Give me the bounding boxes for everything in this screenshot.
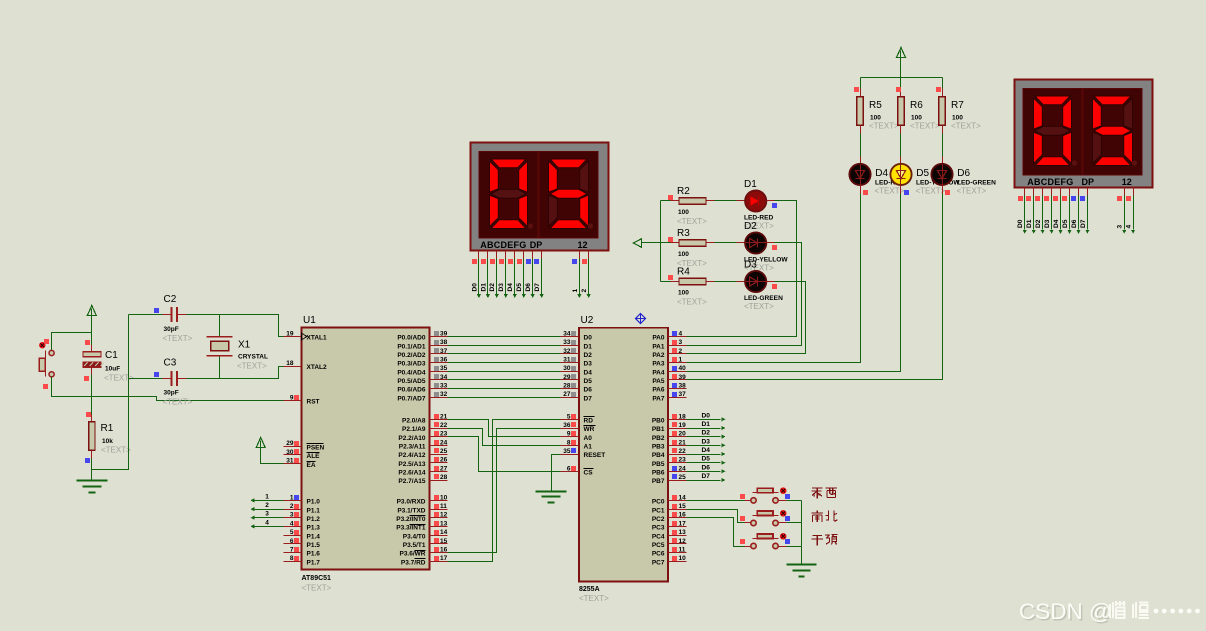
wire R1 to ground — [91, 451, 93, 459]
svg-text:PC3: PC3 — [652, 525, 665, 532]
svg-text:CRYSTAL: CRYSTAL — [238, 354, 268, 361]
svg-text:P3.0/RXD: P3.0/RXD — [397, 499, 426, 506]
U1 pin 9 RST — [284, 400, 302, 402]
svg-text:PA0: PA0 — [652, 335, 665, 342]
LED D5 — [890, 164, 911, 185]
U2 pin 30 D4 — [561, 371, 579, 373]
resistor R4 — [679, 278, 706, 284]
U1 pin 26 P2.5/A13 — [430, 462, 448, 464]
svg-text:P0.4/AD4: P0.4/AD4 — [397, 369, 426, 376]
svg-text:5: 5 — [567, 413, 571, 420]
U2 pin 35 RESET — [561, 454, 579, 456]
U1 pin 17 P3.7/RD — [430, 561, 448, 563]
U1 pin 22 P2.1/A9 — [430, 428, 448, 430]
U2 pin 34 D0 — [561, 336, 579, 338]
wire P0.4 to D4 — [448, 371, 561, 373]
svg-text:D3: D3 — [498, 283, 505, 292]
wire D3 to PA2 — [767, 281, 775, 283]
U2 pin 24 PB6 — [669, 471, 687, 473]
U2 pin 32 D2 — [561, 353, 579, 355]
svg-text:R2: R2 — [677, 186, 690, 197]
svg-text:28: 28 — [440, 474, 448, 481]
push button intervene — [751, 543, 756, 548]
U2 pin 14 PC0 — [669, 500, 687, 502]
U1 pin 16 P3.6/WR — [430, 552, 448, 554]
svg-text:P0.1/AD1: P0.1/AD1 — [397, 343, 426, 350]
IC U2 8255A body — [579, 328, 668, 582]
wire D5 to U2 PA4 — [900, 185, 902, 194]
wire C3 to XTAL2 — [178, 378, 187, 380]
svg-text:R1: R1 — [101, 423, 114, 434]
svg-text:<TEXT>: <TEXT> — [916, 187, 946, 196]
label east-west (chinese) — [812, 488, 823, 499]
svg-text:25: 25 — [440, 448, 448, 455]
terminal D2 (PB2) — [687, 436, 721, 438]
svg-text:P1.2: P1.2 — [307, 516, 321, 523]
svg-text:3: 3 — [679, 339, 683, 346]
U1 pin 11 P3.1/TXD — [430, 509, 448, 511]
U1 pin 18 XTAL2 — [284, 366, 302, 368]
svg-text:P1.5: P1.5 — [307, 542, 321, 549]
ground (buttons) — [787, 564, 817, 566]
capacitor C1 — [83, 352, 101, 357]
svg-text:3: 3 — [265, 511, 269, 518]
wire button bottom to RST net — [52, 377, 284, 401]
wire to R3 — [661, 242, 671, 244]
svg-text:D2: D2 — [489, 283, 496, 292]
U1 pin 6 P1.5 — [284, 543, 302, 545]
svg-text:<TEXT>: <TEXT> — [744, 302, 774, 311]
svg-text:1: 1 — [265, 493, 269, 500]
U2 pin 5 RD — [561, 419, 579, 421]
U1 pin 1 P1.0 — [284, 500, 302, 502]
svg-text:100: 100 — [678, 290, 689, 297]
svg-text:P2.0/A8: P2.0/A8 — [402, 418, 426, 425]
svg-text:D6: D6 — [584, 387, 593, 394]
svg-text:PA1: PA1 — [652, 343, 665, 350]
svg-text:100: 100 — [678, 251, 689, 258]
U1 pin 7 P1.6 — [284, 552, 302, 554]
power terminal VCC (pedestrian LEDs) — [897, 48, 906, 58]
svg-text:27: 27 — [440, 465, 448, 472]
wire rail to R7 — [942, 78, 944, 89]
svg-text:LED-GREEN: LED-GREEN — [744, 295, 783, 302]
svg-text:10k: 10k — [102, 438, 113, 445]
DS1 pin C / net D2 — [496, 251, 498, 259]
svg-text:26: 26 — [440, 457, 448, 464]
U2 pin 19 PB1 — [669, 428, 687, 430]
svg-text:PC7: PC7 — [652, 559, 665, 566]
svg-text:D4: D4 — [702, 447, 711, 454]
svg-text:40: 40 — [679, 365, 687, 372]
U1 pin 30 ALE — [284, 454, 302, 456]
U1 pin 10 P3.0/RXD — [430, 500, 448, 502]
svg-text:33: 33 — [440, 383, 448, 390]
svg-text:PC5: PC5 — [652, 542, 665, 549]
svg-text:PB5: PB5 — [652, 461, 665, 468]
svg-text:D5: D5 — [584, 378, 593, 385]
svg-text:36: 36 — [563, 422, 571, 429]
svg-text:100: 100 — [678, 209, 689, 216]
svg-text:P2.2/A10: P2.2/A10 — [398, 435, 425, 442]
svg-text:R3: R3 — [677, 228, 690, 239]
svg-text:XTAL2: XTAL2 — [307, 364, 327, 371]
capacitor C2 — [129, 314, 163, 316]
svg-text:D3: D3 — [744, 260, 757, 271]
svg-text:16: 16 — [679, 512, 687, 519]
svg-text:<TEXT>: <TEXT> — [163, 398, 193, 407]
wire rail to R5 — [860, 78, 862, 89]
reset button — [51, 351, 53, 355]
wire rail to R6 — [900, 78, 902, 89]
svg-text:D4: D4 — [584, 369, 593, 376]
svg-text:D2: D2 — [1035, 219, 1042, 228]
U2 pin 23 PB5 — [669, 462, 687, 464]
DS1 pin B / net D1 — [487, 251, 489, 259]
svg-text:P0.7/AD7: P0.7/AD7 — [397, 395, 426, 402]
DS2 pin DP / net D7 — [1087, 188, 1089, 196]
svg-text:CS: CS — [584, 470, 594, 477]
DS1 pin E / net D4 — [514, 251, 516, 259]
DS1 pin G / net D6 — [532, 251, 534, 259]
U1 pin 28 P2.7/A15 — [430, 480, 448, 482]
svg-text:19: 19 — [679, 422, 687, 429]
svg-text:12: 12 — [1122, 177, 1132, 187]
origin marker (blue) above U2 — [636, 314, 646, 324]
svg-text:PA4: PA4 — [652, 369, 665, 376]
svg-text:PSEN: PSEN — [307, 444, 325, 451]
svg-text:A1: A1 — [584, 444, 593, 451]
wire VCC rail — [861, 77, 943, 79]
svg-text:D2: D2 — [584, 352, 593, 359]
svg-text:PB1: PB1 — [652, 426, 665, 433]
DS1 pin F / net D5 — [523, 251, 525, 259]
DS2 pin D / net D3 — [1051, 188, 1053, 196]
U2 pin 3 PA1 — [669, 345, 687, 347]
U2 pin 38 PA6 — [669, 388, 687, 390]
svg-text:16: 16 — [440, 546, 448, 553]
svg-text:P1.1: P1.1 — [307, 507, 321, 514]
U1 pin 33 P0.6/AD6 — [430, 388, 448, 390]
svg-text:19: 19 — [286, 331, 294, 338]
svg-text:39: 39 — [440, 331, 448, 338]
svg-text:P3.5/T1: P3.5/T1 — [403, 542, 426, 549]
power terminal VCC (EA pin) — [256, 438, 265, 448]
svg-text:ALE: ALE — [307, 453, 321, 460]
U2 pin 36 WR — [561, 428, 579, 430]
label north-south (chinese) — [812, 511, 824, 523]
svg-text:14: 14 — [679, 494, 687, 501]
svg-text:32: 32 — [440, 391, 448, 398]
svg-text:30: 30 — [563, 365, 571, 372]
7-segment display DS1 frame — [471, 143, 609, 251]
svg-text:13: 13 — [440, 520, 448, 527]
U1 pin 39 P0.0/AD0 — [430, 336, 448, 338]
svg-text:P2.4/A12: P2.4/A12 — [398, 452, 425, 459]
wire D4 to U2 PA3 — [860, 185, 862, 194]
svg-text:LED-GREEN: LED-GREEN — [957, 180, 996, 187]
LED D4 — [849, 164, 870, 185]
U2 pin 29 D5 — [561, 379, 579, 381]
U2 pin 27 D7 — [561, 397, 579, 399]
terminal 2 (P1.1) — [255, 509, 284, 511]
resistor R6 — [898, 97, 904, 126]
svg-text:5: 5 — [290, 529, 294, 536]
svg-text:PC1: PC1 — [652, 507, 665, 514]
svg-text:AT89C51: AT89C51 — [302, 575, 332, 582]
wire VCC to EA — [261, 448, 284, 464]
svg-text:D6: D6 — [957, 168, 970, 179]
svg-text:D5: D5 — [516, 283, 523, 292]
svg-text:PA2: PA2 — [652, 352, 665, 359]
DS2 pin B / net D1 — [1033, 188, 1035, 196]
svg-text:RST: RST — [307, 399, 320, 406]
U2 pin 28 D6 — [561, 388, 579, 390]
U1 pin 8 P1.7 — [284, 561, 302, 563]
svg-text:PA7: PA7 — [652, 395, 665, 402]
svg-text:<TEXT>: <TEXT> — [163, 334, 193, 343]
svg-text:P3.1/TXD: P3.1/TXD — [397, 507, 425, 514]
svg-text:4: 4 — [265, 519, 269, 526]
U1 pin 15 P3.5/T1 — [430, 543, 448, 545]
resistor R5 — [857, 97, 863, 126]
svg-text:100: 100 — [870, 115, 881, 122]
svg-text:R7: R7 — [951, 100, 964, 111]
power terminal VCC (reset circuit) — [87, 306, 96, 316]
wire R4 to LED — [707, 281, 715, 283]
svg-text:<TEXT>: <TEXT> — [302, 584, 332, 593]
U1 pin 36 P0.3/AD3 — [430, 362, 448, 364]
wire PC0 to button 1 — [687, 500, 745, 502]
svg-text:P1.7: P1.7 — [307, 559, 321, 566]
terminal D5 (PB5) — [687, 462, 721, 464]
wire R7 to LED — [942, 126, 944, 134]
svg-text:8: 8 — [567, 439, 571, 446]
svg-text:D0: D0 — [471, 283, 478, 292]
U2 pin 22 PB4 — [669, 454, 687, 456]
LED D3 — [745, 271, 766, 292]
svg-text:D3: D3 — [584, 361, 593, 368]
terminal 1 (P1.0) — [255, 500, 284, 502]
svg-text:P2.1/A9: P2.1/A9 — [402, 426, 426, 433]
wire P0.0 to D0 — [448, 336, 561, 338]
svg-text:D3: D3 — [702, 438, 711, 445]
svg-text:C1: C1 — [105, 350, 118, 361]
U1 pin 34 P0.5/AD5 — [430, 379, 448, 381]
DS2 digit 0 — [1035, 96, 1070, 105]
7-segment display DS2 frame — [1015, 80, 1153, 188]
svg-text:D2: D2 — [702, 430, 711, 437]
terminal 4 (P1.3) — [255, 526, 284, 528]
U1 pin 23 P2.2/A10 — [430, 436, 448, 438]
svg-text:1: 1 — [679, 357, 683, 364]
wire P2.1 to A1 — [448, 429, 561, 446]
svg-text:D6: D6 — [525, 283, 532, 292]
svg-text:ABCDEFG: ABCDEFG — [1027, 177, 1073, 187]
svg-text:CSDN @: CSDN @ — [1019, 599, 1112, 624]
svg-text:P1.6: P1.6 — [307, 551, 321, 558]
DS1 pin D / net D3 — [505, 251, 507, 259]
svg-text:P3.4/T0: P3.4/T0 — [403, 533, 426, 540]
wire PC2 to button 3 — [687, 518, 745, 547]
svg-text:PA3: PA3 — [652, 361, 665, 368]
U2 pin 2 PA2 — [669, 353, 687, 355]
svg-text:XTAL1: XTAL1 — [307, 335, 327, 342]
DS2 pin E / net D4 — [1060, 188, 1062, 196]
svg-text:2: 2 — [581, 289, 588, 293]
svg-text:PC2: PC2 — [652, 516, 665, 523]
terminal D7 (PB7) — [687, 480, 721, 482]
wire P3.7/RD to U2 RD — [448, 420, 561, 562]
LED D1 — [745, 190, 766, 211]
svg-text:PA5: PA5 — [652, 378, 665, 385]
svg-text:30pF: 30pF — [164, 390, 179, 397]
svg-text:P1.4: P1.4 — [307, 533, 321, 540]
U1 pin 27 P2.6/A14 — [430, 471, 448, 473]
svg-text:D0: D0 — [702, 412, 711, 419]
svg-text:4: 4 — [1126, 225, 1133, 229]
U2 pin 6 CS — [561, 471, 579, 473]
svg-text:30: 30 — [286, 449, 294, 456]
svg-text:R4: R4 — [677, 267, 690, 278]
wire R5 to LED — [860, 126, 862, 134]
svg-text:P3.2/INT0: P3.2/INT0 — [396, 516, 426, 523]
svg-text:D1: D1 — [702, 421, 711, 428]
DS2 pin F / net D5 — [1069, 188, 1071, 196]
svg-text:<TEXT>: <TEXT> — [677, 298, 707, 307]
push button east-west — [751, 498, 756, 503]
svg-text:18: 18 — [286, 360, 294, 367]
7-segment display DS1 panel — [479, 152, 598, 239]
svg-text:9: 9 — [567, 431, 571, 438]
svg-text:<TEXT>: <TEXT> — [951, 122, 981, 131]
terminal 3 (P1.2) — [255, 517, 284, 519]
7-segment display DS2 panel — [1023, 89, 1142, 176]
wire C2 to XTAL1 — [178, 314, 187, 316]
svg-text:18: 18 — [679, 413, 687, 420]
svg-text:36: 36 — [440, 357, 448, 364]
svg-text:1: 1 — [290, 494, 294, 501]
svg-text:15: 15 — [440, 538, 448, 545]
svg-text:X1: X1 — [238, 340, 251, 351]
resistor R1 — [89, 422, 95, 450]
svg-text:23: 23 — [440, 431, 448, 438]
svg-text:P0.0/AD0: P0.0/AD0 — [397, 335, 426, 342]
wire buttons to ground — [787, 500, 802, 502]
svg-text:D7: D7 — [534, 283, 541, 292]
svg-text:PC6: PC6 — [652, 551, 665, 558]
svg-text:22: 22 — [679, 448, 687, 455]
svg-text:P0.2/AD2: P0.2/AD2 — [397, 352, 426, 359]
DS2 pin G / net D6 — [1078, 188, 1080, 196]
svg-text:D0: D0 — [584, 335, 593, 342]
svg-text:D3: D3 — [1044, 219, 1051, 228]
DS1 pin 1 / net 1 — [579, 251, 581, 259]
terminal D6 (PB6) — [687, 471, 721, 473]
wire P2.2 to CS — [448, 437, 561, 472]
svg-text:8255A: 8255A — [579, 586, 600, 593]
crystal X1 — [219, 315, 221, 337]
svg-text:P2.3/A11: P2.3/A11 — [399, 444, 426, 451]
svg-text:1: 1 — [572, 289, 579, 293]
U1 pin 35 P0.4/AD4 — [430, 371, 448, 373]
U1 pin 2 P1.1 — [284, 509, 302, 511]
svg-text:12: 12 — [440, 512, 448, 519]
svg-text:PB3: PB3 — [652, 444, 665, 451]
svg-text:P0.6/AD6: P0.6/AD6 — [397, 387, 426, 394]
svg-text:D0: D0 — [1017, 219, 1024, 228]
wire to R2 — [661, 200, 671, 202]
svg-text:24: 24 — [679, 465, 687, 472]
svg-text:35: 35 — [440, 365, 448, 372]
U1 pin 25 P2.4/A12 — [430, 454, 448, 456]
svg-text:2: 2 — [290, 503, 294, 510]
svg-text:PB2: PB2 — [652, 435, 665, 442]
svg-text:P1.3: P1.3 — [307, 525, 321, 532]
U1 pin 21 P2.0/A8 — [430, 419, 448, 421]
svg-text:<TEXT>: <TEXT> — [910, 122, 940, 131]
svg-text:100: 100 — [952, 115, 963, 122]
svg-text:22: 22 — [440, 422, 448, 429]
svg-text:C2: C2 — [164, 294, 177, 305]
wire D6 to U2 PA5 — [942, 185, 944, 194]
svg-text:P3.3/INT1: P3.3/INT1 — [396, 525, 426, 532]
ground (U2 RESET) — [536, 491, 567, 493]
svg-text:PB7: PB7 — [652, 478, 665, 485]
U2 pin 40 PA4 — [669, 371, 687, 373]
svg-text:31: 31 — [286, 458, 294, 465]
U1 pin 5 P1.4 — [284, 535, 302, 537]
svg-text:21: 21 — [440, 413, 448, 420]
wire P0.5 to D5 — [448, 379, 561, 381]
LED D6 — [931, 164, 952, 185]
svg-text:27: 27 — [563, 391, 571, 398]
wire power to C1 — [91, 316, 93, 345]
svg-text:23: 23 — [679, 457, 687, 464]
U2 pin 4 PA0 — [669, 336, 687, 338]
svg-text:38: 38 — [679, 383, 687, 390]
svg-text:12: 12 — [577, 240, 587, 250]
svg-text:P2.6/A14: P2.6/A14 — [398, 470, 425, 477]
svg-text:D1: D1 — [480, 283, 487, 292]
svg-text:D7: D7 — [584, 395, 593, 402]
U2 pin 1 PA3 — [669, 362, 687, 364]
svg-text:D1: D1 — [744, 179, 757, 190]
capacitor C3 — [129, 378, 163, 380]
DS1 digit 0 — [491, 159, 526, 168]
svg-text:D6: D6 — [702, 464, 711, 471]
U2 pin 37 PA7 — [669, 397, 687, 399]
svg-text:8: 8 — [290, 555, 294, 562]
svg-text:10uF: 10uF — [105, 366, 120, 373]
svg-text:3: 3 — [290, 512, 294, 519]
microcontroller U1 AT89C51 body — [302, 328, 430, 570]
wire P0.1 to D1 — [448, 345, 561, 347]
svg-text:D5: D5 — [916, 168, 929, 179]
svg-text:29: 29 — [563, 374, 571, 381]
svg-text:4: 4 — [679, 331, 683, 338]
svg-text:D4: D4 — [507, 283, 514, 292]
wire D1 to PA0 — [767, 200, 775, 202]
U2 pin 21 PB3 — [669, 445, 687, 447]
wire P0.2 to D2 — [448, 353, 561, 355]
wire button top branch — [52, 333, 92, 351]
U2 pin 10 PC7 — [669, 561, 687, 563]
svg-text:P2.5/A13: P2.5/A13 — [398, 461, 425, 468]
svg-text:U1: U1 — [303, 315, 316, 326]
svg-text:D7: D7 — [1080, 219, 1087, 228]
wire R3 to LED — [707, 242, 715, 244]
